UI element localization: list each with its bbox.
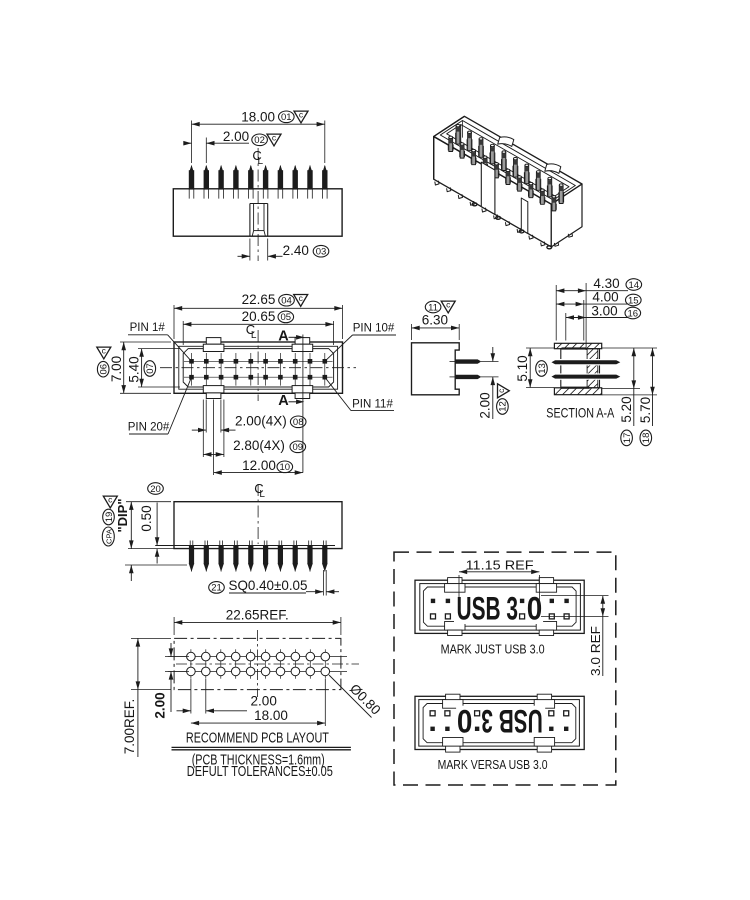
iso far wall key flap 2 xyxy=(545,164,561,174)
balloon 01 xyxy=(279,111,295,123)
svg-text:17: 17 xyxy=(622,433,633,444)
dimension 6.30 xyxy=(412,327,460,329)
leader diameter 0.80 xyxy=(329,675,372,718)
balloon 13 xyxy=(536,361,548,377)
PCB pad col 7 row 2 xyxy=(280,664,282,679)
iso center key wall xyxy=(481,162,495,214)
svg-text:7.00: 7.00 xyxy=(109,356,124,382)
svg-text:19: 19 xyxy=(104,512,115,523)
svg-text:6.30: 6.30 xyxy=(422,312,448,327)
PCB layout vertical centerline xyxy=(257,630,259,697)
mark view connector JUST xyxy=(415,578,584,636)
iso cavity left inner corner xyxy=(460,125,462,146)
PCB pad col 3 row 1 xyxy=(220,649,222,664)
top view key slot bottom xyxy=(292,386,313,393)
svg-text:10: 10 xyxy=(280,462,291,473)
PCB pad col 1 row 2 xyxy=(190,664,192,679)
PCB pad col 9 row 1 xyxy=(309,649,311,664)
section A-A bottom cap xyxy=(554,388,601,395)
dimension 22.65 xyxy=(174,307,343,309)
DIP height dimension extension lines xyxy=(126,501,171,503)
balloon 15 xyxy=(626,294,642,306)
dimension 12.00 xyxy=(214,472,303,474)
svg-text:A: A xyxy=(278,393,289,409)
dimension 5.40 extension lines xyxy=(138,348,180,350)
front view center slot xyxy=(249,204,251,237)
dimension 3.0 REF xyxy=(602,596,604,676)
top view cavity with chamfered corners xyxy=(183,349,333,387)
svg-text:18: 18 xyxy=(641,433,652,444)
svg-text:2.40: 2.40 xyxy=(283,243,309,258)
dimension 2.80(4X) extension lines xyxy=(202,400,204,458)
dimension 4.30 xyxy=(556,290,628,292)
balloon 10 xyxy=(277,461,293,473)
svg-text:3.0 REF: 3.0 REF xyxy=(588,626,603,676)
dimension 5.40 xyxy=(141,349,143,387)
dimension 18.00 pcb extension line xyxy=(324,679,326,726)
svg-text:CPA: CPA xyxy=(105,529,114,544)
DIP height dimension xyxy=(130,502,132,549)
svg-text:14: 14 xyxy=(629,280,640,291)
section A-A body xyxy=(561,349,600,388)
svg-text:12: 12 xyxy=(498,401,509,412)
svg-text:2.00: 2.00 xyxy=(251,694,277,709)
DIP view pin 2 xyxy=(204,541,206,546)
dimension 3.00 extension line xyxy=(565,313,567,341)
svg-text:c: c xyxy=(496,388,506,393)
dimension 2.00 column pitch extension lines xyxy=(190,679,192,714)
svg-text:c: c xyxy=(102,346,107,356)
iso right end face xyxy=(551,184,582,247)
iso bottom feet xyxy=(435,181,439,185)
DIP view pin 6 xyxy=(263,541,265,546)
PCB pad col 6 row 2 xyxy=(265,664,267,679)
dimension 22.65 extension lines xyxy=(173,305,175,339)
balloon CPA xyxy=(102,527,114,546)
DIP view body xyxy=(174,502,342,549)
PCB layout horizontal centerline xyxy=(176,663,359,665)
svg-text:5.70: 5.70 xyxy=(638,397,653,423)
top view pin column 10 xyxy=(324,353,326,386)
section A-A cutting line xyxy=(302,335,304,473)
top view pin column 5 xyxy=(250,353,252,386)
PCB pad col 5 row 2 xyxy=(250,664,252,679)
svg-text:09: 09 xyxy=(293,442,304,453)
front view pin 7 xyxy=(279,166,281,171)
svg-text:PIN 11#: PIN 11# xyxy=(352,398,393,410)
svg-text:03: 03 xyxy=(316,247,327,258)
DIP view pin 5 xyxy=(249,541,251,546)
balloon 09 xyxy=(290,441,306,453)
svg-text:05: 05 xyxy=(281,312,292,323)
svg-text:08: 08 xyxy=(293,417,304,428)
front view vertical centerline xyxy=(257,148,259,261)
top view pin column 1 xyxy=(191,353,193,386)
PCB pad col 10 row 1 xyxy=(324,649,326,664)
dimension 6.30 extension lines xyxy=(411,324,413,340)
svg-text:18.00: 18.00 xyxy=(241,109,275,124)
svg-text:L: L xyxy=(259,489,265,500)
balloon 11 xyxy=(425,301,441,313)
mark box outer xyxy=(415,580,584,633)
PCB pad col 3 row 2 xyxy=(220,664,222,679)
dimension 18.00 xyxy=(192,123,325,125)
iso top rim outer xyxy=(434,116,582,204)
dimension 18.00 extension lines xyxy=(191,121,193,164)
triangle flag 12 xyxy=(496,384,509,398)
iso front face xyxy=(434,137,552,247)
svg-text:"DIP": "DIP" xyxy=(115,499,130,533)
balloon 14 xyxy=(626,279,642,291)
dimension SQ0.40 extension lines xyxy=(322,570,324,596)
svg-text:20: 20 xyxy=(150,484,161,495)
side view pin lower xyxy=(455,375,480,379)
balloon 04 xyxy=(279,294,295,306)
top view second wall xyxy=(179,346,338,389)
mark box key top xyxy=(539,578,553,584)
front view pin 2 xyxy=(205,166,207,171)
dimension 2.00 pins xyxy=(492,347,494,362)
DIP view vertical centerline xyxy=(257,484,259,544)
top view pin column 9 xyxy=(309,353,311,386)
mark box inner wall xyxy=(420,584,581,631)
svg-text:21: 21 xyxy=(211,583,222,594)
dimension 3.00 xyxy=(566,317,628,319)
balloon 18 xyxy=(640,430,652,446)
dimension 7.00REF xyxy=(137,638,139,689)
svg-text:3.00: 3.00 xyxy=(591,303,617,318)
balloon 03 xyxy=(313,245,329,257)
mark view connector VERSA (rotated copy) xyxy=(415,694,584,752)
dimension 20.65 extension lines xyxy=(182,321,184,345)
balloon 05 xyxy=(278,311,294,323)
mark box pin dots xyxy=(431,599,435,603)
top view key slot bottom xyxy=(203,386,224,393)
DIP view pin 4 xyxy=(234,541,236,546)
svg-text:SECTION A-A: SECTION A-A xyxy=(546,405,615,421)
iso side wall slab 2 xyxy=(521,198,528,233)
svg-text:c: c xyxy=(446,300,451,310)
PCB layout row lines xyxy=(168,656,347,658)
svg-text:07: 07 xyxy=(145,363,156,374)
top view pin column 6 xyxy=(265,353,267,386)
section A-A hatching xyxy=(555,343,602,394)
top view pin column 8 xyxy=(294,353,296,386)
svg-text:PIN 20#: PIN 20# xyxy=(128,422,170,434)
svg-text:15: 15 xyxy=(628,295,639,306)
dimension 12.00 extension line xyxy=(213,400,215,476)
svg-text:13: 13 xyxy=(537,363,548,374)
front view pin 9 xyxy=(309,166,311,171)
mark box key top xyxy=(448,578,462,584)
dimension 0.50 xyxy=(156,503,158,546)
section A-A pin upper xyxy=(552,359,620,365)
dimension 2.00 extension lines xyxy=(205,138,207,164)
dimension 2.00(4X) xyxy=(192,429,206,431)
top view pin column 4 xyxy=(235,353,237,386)
DIP view ledge line xyxy=(155,545,335,547)
svg-text:2.00: 2.00 xyxy=(478,392,493,418)
svg-text:USB 3: USB 3 xyxy=(457,591,519,627)
dimension 7.00 xyxy=(123,342,125,393)
svg-text:MARK VERSA USB 3.0: MARK VERSA USB 3.0 xyxy=(438,758,548,772)
front view body xyxy=(173,189,342,236)
dimension 5.20 xyxy=(633,348,635,426)
DIP view pin 10 xyxy=(323,541,325,546)
svg-text:5.10: 5.10 xyxy=(515,355,530,381)
dimension 2.00 xyxy=(184,142,191,144)
top view key slot top xyxy=(295,338,310,345)
top view outer body xyxy=(174,342,343,393)
balloon 17 xyxy=(621,430,633,446)
svg-text:4.00: 4.00 xyxy=(592,290,618,305)
triangle flag 19 xyxy=(103,495,117,508)
svg-text:11: 11 xyxy=(428,302,438,313)
svg-text:2.00: 2.00 xyxy=(223,129,249,144)
top view horizontal centerline xyxy=(160,367,356,369)
svg-text:PIN 10#: PIN 10# xyxy=(353,323,395,335)
dimension 22.65REF extension lines xyxy=(173,617,175,635)
mark text USB 3.0 xyxy=(454,593,519,624)
svg-text:22.65REF.: 22.65REF. xyxy=(226,607,289,622)
svg-text:16: 16 xyxy=(628,308,639,319)
dimension 2.00 row pitch extension lines xyxy=(165,656,189,658)
top view pin row lines xyxy=(184,360,333,362)
front view pin 4 xyxy=(235,166,237,171)
balloon 07 xyxy=(144,361,156,377)
PCB pad col 5 row 1 xyxy=(250,649,252,664)
front view pin 8 xyxy=(294,166,296,171)
dimension 22.65REF xyxy=(174,621,341,623)
svg-text:02: 02 xyxy=(254,135,265,146)
PCB layout board outline xyxy=(174,638,341,689)
DIP view pin 1 xyxy=(189,541,191,546)
dimension 2.00 column pitch xyxy=(177,710,191,712)
section A-A key slot hatched strip edges xyxy=(586,349,588,388)
triangle flag 01 xyxy=(294,110,308,123)
svg-text:DEFULT TOLERANCES±0.05: DEFULT TOLERANCES±0.05 xyxy=(187,763,333,780)
svg-text:5.40: 5.40 xyxy=(126,356,141,382)
svg-text:18.00: 18.00 xyxy=(254,708,288,723)
triangle flag 11 xyxy=(441,300,455,313)
mark box key bottom xyxy=(536,622,556,631)
triangle flag 02 xyxy=(267,133,281,146)
dimension 5.20 5.70 extension lines xyxy=(602,347,657,349)
dimension 11.15 REF extension lines xyxy=(458,575,460,606)
dashed boundary box xyxy=(394,552,616,785)
PCB pad col 6 row 1 xyxy=(265,649,267,664)
top view pin column 3 xyxy=(220,353,222,386)
svg-text:01: 01 xyxy=(281,112,292,123)
section A-A top cap xyxy=(554,343,601,348)
iso right end feet xyxy=(568,233,572,237)
dimension 5.70 xyxy=(652,348,654,426)
triangle flag 06 xyxy=(97,346,111,359)
svg-text:c: c xyxy=(299,293,304,303)
front view pin 1 xyxy=(191,166,193,171)
svg-text:2.00(4X): 2.00(4X) xyxy=(235,414,287,429)
triangle flag 04 xyxy=(294,293,308,306)
svg-text:12.00: 12.00 xyxy=(242,458,276,473)
svg-text:0.50: 0.50 xyxy=(139,505,154,531)
iso top rim inner lines xyxy=(440,121,575,201)
balloon 20 xyxy=(148,483,164,495)
svg-text:L: L xyxy=(258,156,264,167)
svg-text:A: A xyxy=(278,329,289,345)
dimension 2.40 extension lines xyxy=(249,239,251,261)
dimension SQ0.40 xyxy=(306,591,323,593)
dimension 2.80(4X) xyxy=(203,453,224,455)
dimension 7.00 extension lines xyxy=(120,341,171,343)
PCB pad col 4 row 1 xyxy=(235,649,237,664)
svg-text:MARK JUST USB 3.0: MARK JUST USB 3.0 xyxy=(441,643,545,657)
section A-A pin lower xyxy=(552,373,620,379)
svg-text:SQ0.40±0.05: SQ0.40±0.05 xyxy=(229,577,308,593)
svg-text:L: L xyxy=(251,330,257,341)
DIP view pin 3 xyxy=(219,541,221,546)
side view body outline xyxy=(412,343,460,395)
PCB pad col 4 row 2 xyxy=(235,664,237,679)
top view vertical centerline xyxy=(257,330,259,401)
svg-text:c: c xyxy=(108,495,113,505)
balloon 19 xyxy=(103,509,115,525)
front view pin 10 xyxy=(324,166,326,171)
dimension 2.00(4X) extension lines xyxy=(205,400,207,433)
DIP view pin 9 xyxy=(308,541,310,546)
table double line xyxy=(172,746,351,748)
svg-text:06: 06 xyxy=(98,364,109,375)
iso pins xyxy=(456,126,460,144)
front view pin 5 xyxy=(250,166,252,171)
PCB pad col 1 row 1 xyxy=(190,649,192,664)
svg-text:20.65: 20.65 xyxy=(242,309,276,324)
dimension 20.65 xyxy=(183,323,333,325)
DIP view pin 7 xyxy=(278,541,280,546)
balloon 02 xyxy=(252,134,268,146)
dimension 2.00 row pitch xyxy=(170,643,172,657)
top view key slot top xyxy=(206,338,221,345)
dimension 5.10 extension lines xyxy=(526,347,554,349)
iso left end edges xyxy=(434,116,465,179)
dimension 4.30 extension lines xyxy=(555,285,557,341)
mark box key bottom xyxy=(445,622,465,631)
dimension 2.40 xyxy=(238,255,250,257)
dimension 4.00 extension line xyxy=(583,300,585,341)
balloon 12 xyxy=(497,399,509,415)
balloon 21 xyxy=(209,582,225,594)
PCB pad col 2 row 1 xyxy=(205,649,207,664)
DIP pin shoulder dimension xyxy=(130,565,132,581)
PCB pad col 8 row 1 xyxy=(294,649,296,664)
top view pin column 2 xyxy=(205,353,207,386)
svg-text:2.80(4X): 2.80(4X) xyxy=(233,438,285,453)
PCB pad col 2 row 2 xyxy=(205,664,207,679)
svg-text:PIN 1#: PIN 1# xyxy=(130,322,166,334)
svg-text:0: 0 xyxy=(527,591,543,627)
PCB pad col 9 row 2 xyxy=(309,664,311,679)
DIP view pin 8 xyxy=(293,541,295,546)
balloon 08 xyxy=(290,416,306,428)
svg-text:5.20: 5.20 xyxy=(619,396,634,422)
dimension 5.10 xyxy=(529,348,531,388)
top view pin column 7 xyxy=(279,353,281,386)
balloon 16 xyxy=(625,307,641,319)
dimension 11.15 REF xyxy=(459,571,539,573)
svg-text:7.00REF.: 7.00REF. xyxy=(122,699,137,755)
front view pin 6 xyxy=(265,166,267,171)
svg-text:04: 04 xyxy=(281,296,292,307)
svg-text:2.00: 2.00 xyxy=(153,692,168,718)
PCB pad col 8 row 2 xyxy=(294,664,296,679)
svg-text:11.15 REF: 11.15 REF xyxy=(466,557,534,572)
PCB pad col 10 row 2 xyxy=(324,664,326,679)
dimension 3.0 REF extension lines xyxy=(541,595,609,597)
dimension 18.00 pcb xyxy=(191,722,325,724)
PCB pad col 7 row 1 xyxy=(280,649,282,664)
dimension 2.00 pins extension lines xyxy=(481,361,499,363)
dimension 7.00REF extension lines xyxy=(131,637,171,639)
iso far wall key flap 1 xyxy=(498,137,514,147)
svg-text:RECOMMEND PCB LAYOUT: RECOMMEND PCB LAYOUT xyxy=(186,729,329,746)
iso solder tails xyxy=(472,203,477,206)
mark box cavity xyxy=(423,587,576,626)
svg-text:22.65: 22.65 xyxy=(242,292,276,307)
balloon 06 xyxy=(97,361,109,377)
isometric view of connector xyxy=(434,116,582,249)
dimension 4.00 xyxy=(556,303,628,305)
front view pin 3 xyxy=(220,166,222,171)
side view pin upper xyxy=(455,360,480,364)
